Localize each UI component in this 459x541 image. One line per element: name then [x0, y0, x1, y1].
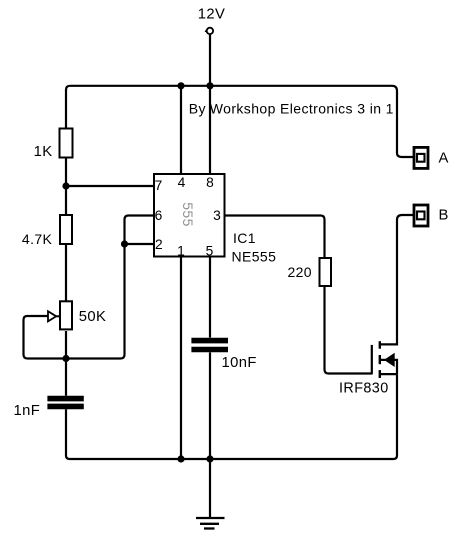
svg-text:NE555: NE555	[232, 249, 277, 265]
svg-text:IC1: IC1	[233, 230, 256, 246]
svg-text:3: 3	[213, 208, 221, 223]
svg-text:1nF: 1nF	[14, 403, 41, 419]
svg-text:Workshop Electronics 3 in 1: Workshop Electronics 3 in 1	[210, 101, 394, 117]
svg-text:1: 1	[177, 243, 185, 258]
svg-text:By: By	[189, 101, 206, 117]
svg-text:4.7K: 4.7K	[22, 231, 53, 247]
svg-text:2: 2	[155, 237, 163, 252]
svg-text:5: 5	[206, 243, 214, 258]
svg-text:B: B	[439, 208, 449, 224]
svg-text:10nF: 10nF	[222, 355, 257, 371]
svg-text:1K: 1K	[34, 144, 53, 160]
svg-text:A: A	[439, 151, 449, 167]
svg-text:220: 220	[287, 264, 312, 280]
svg-text:6: 6	[155, 208, 163, 223]
svg-text:8: 8	[206, 175, 214, 190]
svg-text:50K: 50K	[79, 309, 107, 325]
svg-text:7: 7	[155, 178, 163, 193]
svg-text:12V: 12V	[198, 6, 226, 22]
svg-text:555: 555	[180, 202, 196, 227]
svg-text:4: 4	[178, 175, 186, 190]
svg-text:IRF830: IRF830	[339, 381, 389, 397]
